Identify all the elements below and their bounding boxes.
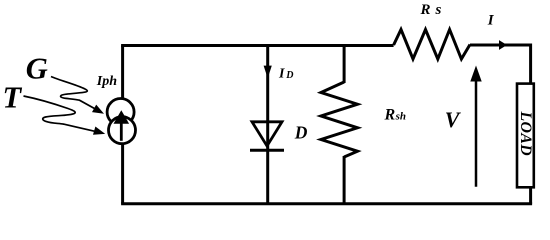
load resistor box [517, 84, 534, 188]
svg-text:D: D [285, 70, 293, 81]
label Rsh [384, 106, 407, 123]
svg-text:G: G [26, 51, 48, 85]
resistor Rs zigzag [394, 30, 470, 60]
svg-text:I: I [487, 12, 495, 28]
svg-text:D: D [294, 123, 308, 143]
svg-text:I: I [278, 67, 285, 82]
diode D symbol [250, 122, 284, 150]
label Rs [420, 2, 442, 18]
wire: Rsh branch vertical bottom stub [343, 156, 346, 204]
svg-text:T: T [3, 81, 23, 115]
svg-text:R: R [420, 2, 431, 18]
wire: diode branch vertical [266, 46, 269, 204]
svg-text:V: V [445, 107, 462, 132]
wire: right vertical lower [529, 187, 532, 204]
squiggle arrow from T to source [24, 96, 106, 135]
wire: right vertical upper [529, 44, 532, 85]
svg-text:LOAD: LOAD [517, 110, 534, 156]
wire: bottom horizontal [121, 202, 532, 205]
current source Iph: two circles [107, 99, 135, 144]
current arrow I on top wire [499, 40, 507, 50]
voltage arrow V [470, 66, 481, 187]
current arrow ID on diode branch [264, 66, 272, 79]
svg-text:R: R [384, 106, 396, 123]
squiggle arrow from G to source [51, 77, 104, 114]
wire: top horizontal right of Rs [470, 44, 531, 47]
label ID [278, 67, 294, 82]
wire: Rsh branch vertical top stub [343, 46, 346, 84]
resistor Rsh zigzag [321, 82, 358, 157]
wire: top horizontal left of Rs [121, 44, 394, 47]
svg-text:s: s [435, 2, 442, 18]
current source arrow [114, 110, 130, 141]
svg-text:sh: sh [395, 110, 406, 122]
wire: left vertical [121, 46, 124, 204]
svg-text:Iph: Iph [96, 74, 117, 89]
